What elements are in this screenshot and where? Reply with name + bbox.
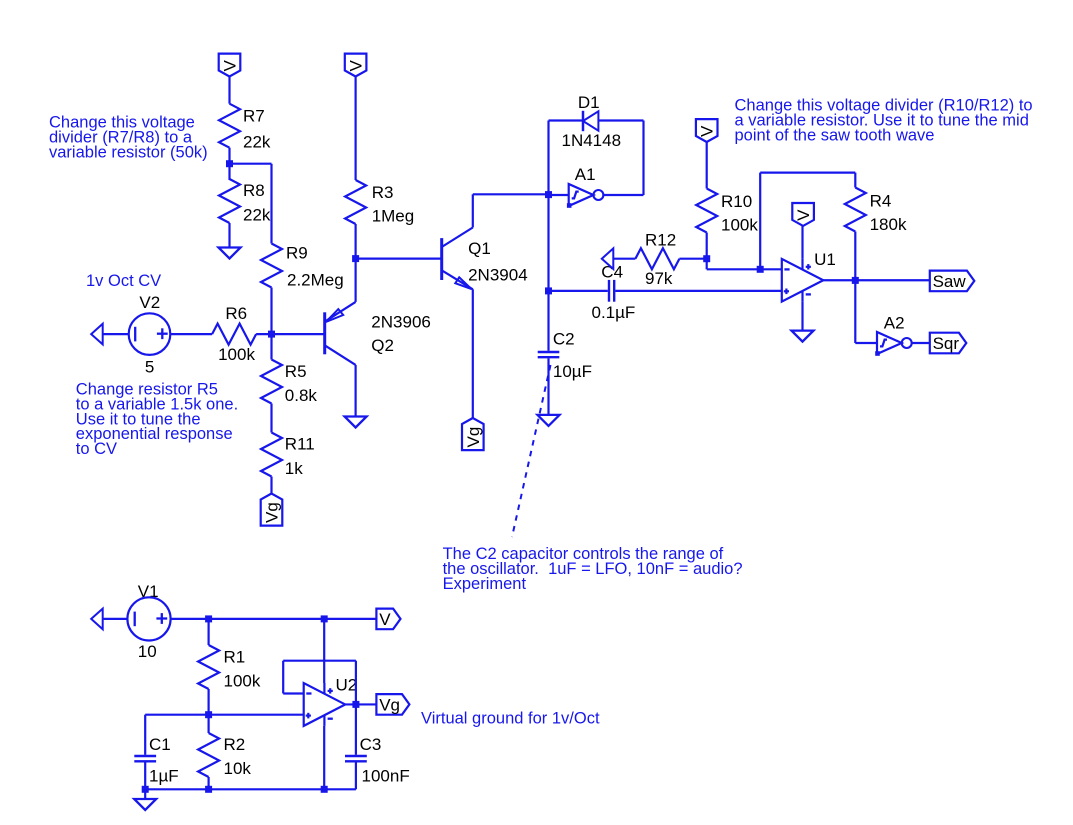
svg-text:V: V xyxy=(221,60,240,72)
svg-text:C4: C4 xyxy=(601,263,623,282)
svg-text:0.1µF: 0.1µF xyxy=(592,303,636,322)
svg-text:U1: U1 xyxy=(814,250,836,269)
svg-text:Sqr: Sqr xyxy=(933,334,960,353)
svg-text:180k: 180k xyxy=(870,215,907,234)
svg-text:R11: R11 xyxy=(285,435,315,454)
svg-text:Q2: Q2 xyxy=(371,336,394,355)
svg-text:V: V xyxy=(347,60,366,72)
svg-text:V2: V2 xyxy=(139,293,160,312)
svg-text:0.8k: 0.8k xyxy=(285,386,318,405)
svg-text:Experiment: Experiment xyxy=(443,575,527,593)
svg-text:R8: R8 xyxy=(243,181,265,200)
svg-text:variable resistor (50k): variable resistor (50k) xyxy=(49,143,208,161)
svg-text:C3: C3 xyxy=(360,735,382,754)
svg-text:R9: R9 xyxy=(286,244,308,263)
svg-text:10: 10 xyxy=(138,642,157,661)
svg-text:C1: C1 xyxy=(149,735,171,754)
svg-text:10k: 10k xyxy=(224,759,252,778)
svg-text:A1: A1 xyxy=(575,165,596,184)
svg-text:2N3906: 2N3906 xyxy=(371,312,431,331)
svg-text:10µF: 10µF xyxy=(553,362,592,381)
svg-text:to CV: to CV xyxy=(76,440,117,458)
svg-text:Saw: Saw xyxy=(933,272,967,291)
svg-text:D1: D1 xyxy=(578,93,600,112)
svg-text:22k: 22k xyxy=(243,206,271,225)
svg-text:R12: R12 xyxy=(645,230,676,249)
svg-text:point of the saw tooth wave: point of the saw tooth wave xyxy=(735,126,935,144)
svg-text:R2: R2 xyxy=(224,735,246,754)
svg-text:R3: R3 xyxy=(372,183,394,202)
svg-text:1µF: 1µF xyxy=(149,767,179,786)
svg-text:22k: 22k xyxy=(243,133,271,152)
svg-text:R7: R7 xyxy=(243,107,265,126)
svg-text:100nF: 100nF xyxy=(362,767,410,786)
svg-text:5: 5 xyxy=(145,357,154,376)
svg-text:1v Oct CV: 1v Oct CV xyxy=(86,272,161,290)
svg-text:1k: 1k xyxy=(285,459,303,478)
svg-text:V: V xyxy=(379,610,391,629)
svg-text:V: V xyxy=(698,125,717,137)
svg-text:V: V xyxy=(794,209,813,221)
svg-text:C2: C2 xyxy=(553,330,575,349)
svg-text:Vg: Vg xyxy=(464,427,483,448)
svg-text:R5: R5 xyxy=(285,362,307,381)
svg-text:R1: R1 xyxy=(224,647,246,666)
svg-text:A2: A2 xyxy=(884,314,905,333)
svg-text:1N4148: 1N4148 xyxy=(562,131,622,150)
svg-text:2.2Meg: 2.2Meg xyxy=(287,271,344,290)
svg-text:Virtual ground for 1v/Oct: Virtual ground for 1v/Oct xyxy=(421,710,600,728)
svg-text:100k: 100k xyxy=(721,215,758,234)
svg-text:Q1: Q1 xyxy=(468,239,491,258)
svg-text:100k: 100k xyxy=(218,345,255,364)
svg-text:U2: U2 xyxy=(336,675,358,694)
svg-text:100k: 100k xyxy=(224,672,261,691)
svg-text:Vg: Vg xyxy=(263,502,282,523)
svg-text:2N3904: 2N3904 xyxy=(468,265,528,284)
svg-text:R4: R4 xyxy=(870,192,892,211)
svg-text:R6: R6 xyxy=(225,304,247,323)
svg-text:1Meg: 1Meg xyxy=(372,207,415,226)
svg-text:97k: 97k xyxy=(645,269,673,288)
svg-text:Vg: Vg xyxy=(379,696,400,715)
svg-text:R10: R10 xyxy=(721,192,752,211)
